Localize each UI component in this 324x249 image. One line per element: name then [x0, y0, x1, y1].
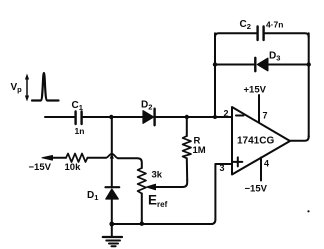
wire: pin 3 horizontal — [215, 163, 232, 165]
node: ground junction — [109, 222, 114, 227]
op-amp minus sign — [236, 115, 244, 117]
diode D2 — [143, 109, 155, 126]
wire: feedback left vertical — [214, 33, 216, 117]
svg-text:1M: 1M — [193, 145, 206, 156]
wire: pot bottom to ground rail — [141, 194, 143, 224]
pin 7 supply line — [258, 95, 260, 123]
diode D1 — [106, 187, 120, 199]
svg-text:3k: 3k — [152, 170, 163, 181]
wire: input to C1 — [45, 116, 74, 118]
svg-text:C1: C1 — [72, 100, 83, 112]
svg-text:Eref: Eref — [148, 193, 168, 210]
pin 4 supply line — [260, 158, 262, 181]
input pulse waveform — [32, 73, 59, 101]
capacitor C2 — [258, 27, 264, 41]
op-amp plus sign — [233, 157, 242, 166]
svg-text:−15V: −15V — [245, 184, 268, 195]
wire: hop to potentiometer 3k top — [118, 158, 142, 168]
svg-text:10k: 10k — [65, 162, 82, 173]
svg-text:1741CG: 1741CG — [237, 136, 274, 147]
node: R 1M junction on input wire — [185, 115, 189, 119]
resistor R 1M — [183, 136, 191, 158]
Vp amplitude arrow — [25, 74, 29, 102]
node: pot bottom on rail — [140, 222, 144, 226]
wire: feedback top C2 branch — [215, 33, 309, 37]
ground rail — [112, 164, 216, 224]
pot wiper arrow from Eref — [147, 180, 188, 190]
svg-text:4·7n: 4·7n — [266, 20, 283, 30]
node A junction at C1/D2/D1 branch — [109, 115, 113, 119]
svg-text:D1: D1 — [87, 190, 98, 202]
resistor 10k — [66, 154, 88, 163]
svg-text:D3: D3 — [269, 51, 280, 63]
scan speck — [307, 210, 309, 212]
svg-text:Vp: Vp — [11, 82, 23, 94]
wire: C1 to D2 — [83, 116, 143, 118]
wire: 10k to hop arrow — [88, 157, 107, 159]
wire: node A down to D1 — [111, 117, 113, 187]
svg-text:D2: D2 — [141, 100, 152, 112]
wire: D2 to op-amp inverting input — [156, 116, 233, 118]
wire hop with arrow onto D1 branch — [106, 153, 118, 158]
wire: R junction down to resistor — [186, 117, 188, 136]
svg-text:7: 7 — [263, 111, 268, 121]
svg-text:2: 2 — [224, 109, 229, 119]
svg-text:+15V: +15V — [244, 85, 267, 96]
svg-text:1n: 1n — [75, 126, 85, 136]
svg-text:4: 4 — [264, 159, 269, 169]
potentiometer 3k — [138, 168, 146, 194]
node: D3 left junction — [213, 62, 217, 66]
capacitor C1 — [76, 112, 82, 125]
wire: D3 branch — [215, 64, 254, 66]
wire: D1 to ground rail — [111, 199, 113, 224]
op-amp U1 1741CG — [232, 107, 290, 175]
svg-text:3: 3 — [220, 163, 225, 173]
wire: right vertical (feedback to output) — [308, 33, 310, 137]
svg-text:−15V: −15V — [29, 162, 52, 173]
node: feedback junction on input wire — [213, 115, 217, 119]
ground symbol — [103, 224, 122, 246]
diode D3 — [255, 58, 268, 71]
node: D3 right junction — [307, 62, 311, 66]
supply arrow -15V — [42, 156, 66, 161]
svg-text:C2: C2 — [240, 19, 251, 31]
wire: 1M bottom to wiper corner — [186, 158, 188, 180]
wire: output — [290, 136, 309, 141]
